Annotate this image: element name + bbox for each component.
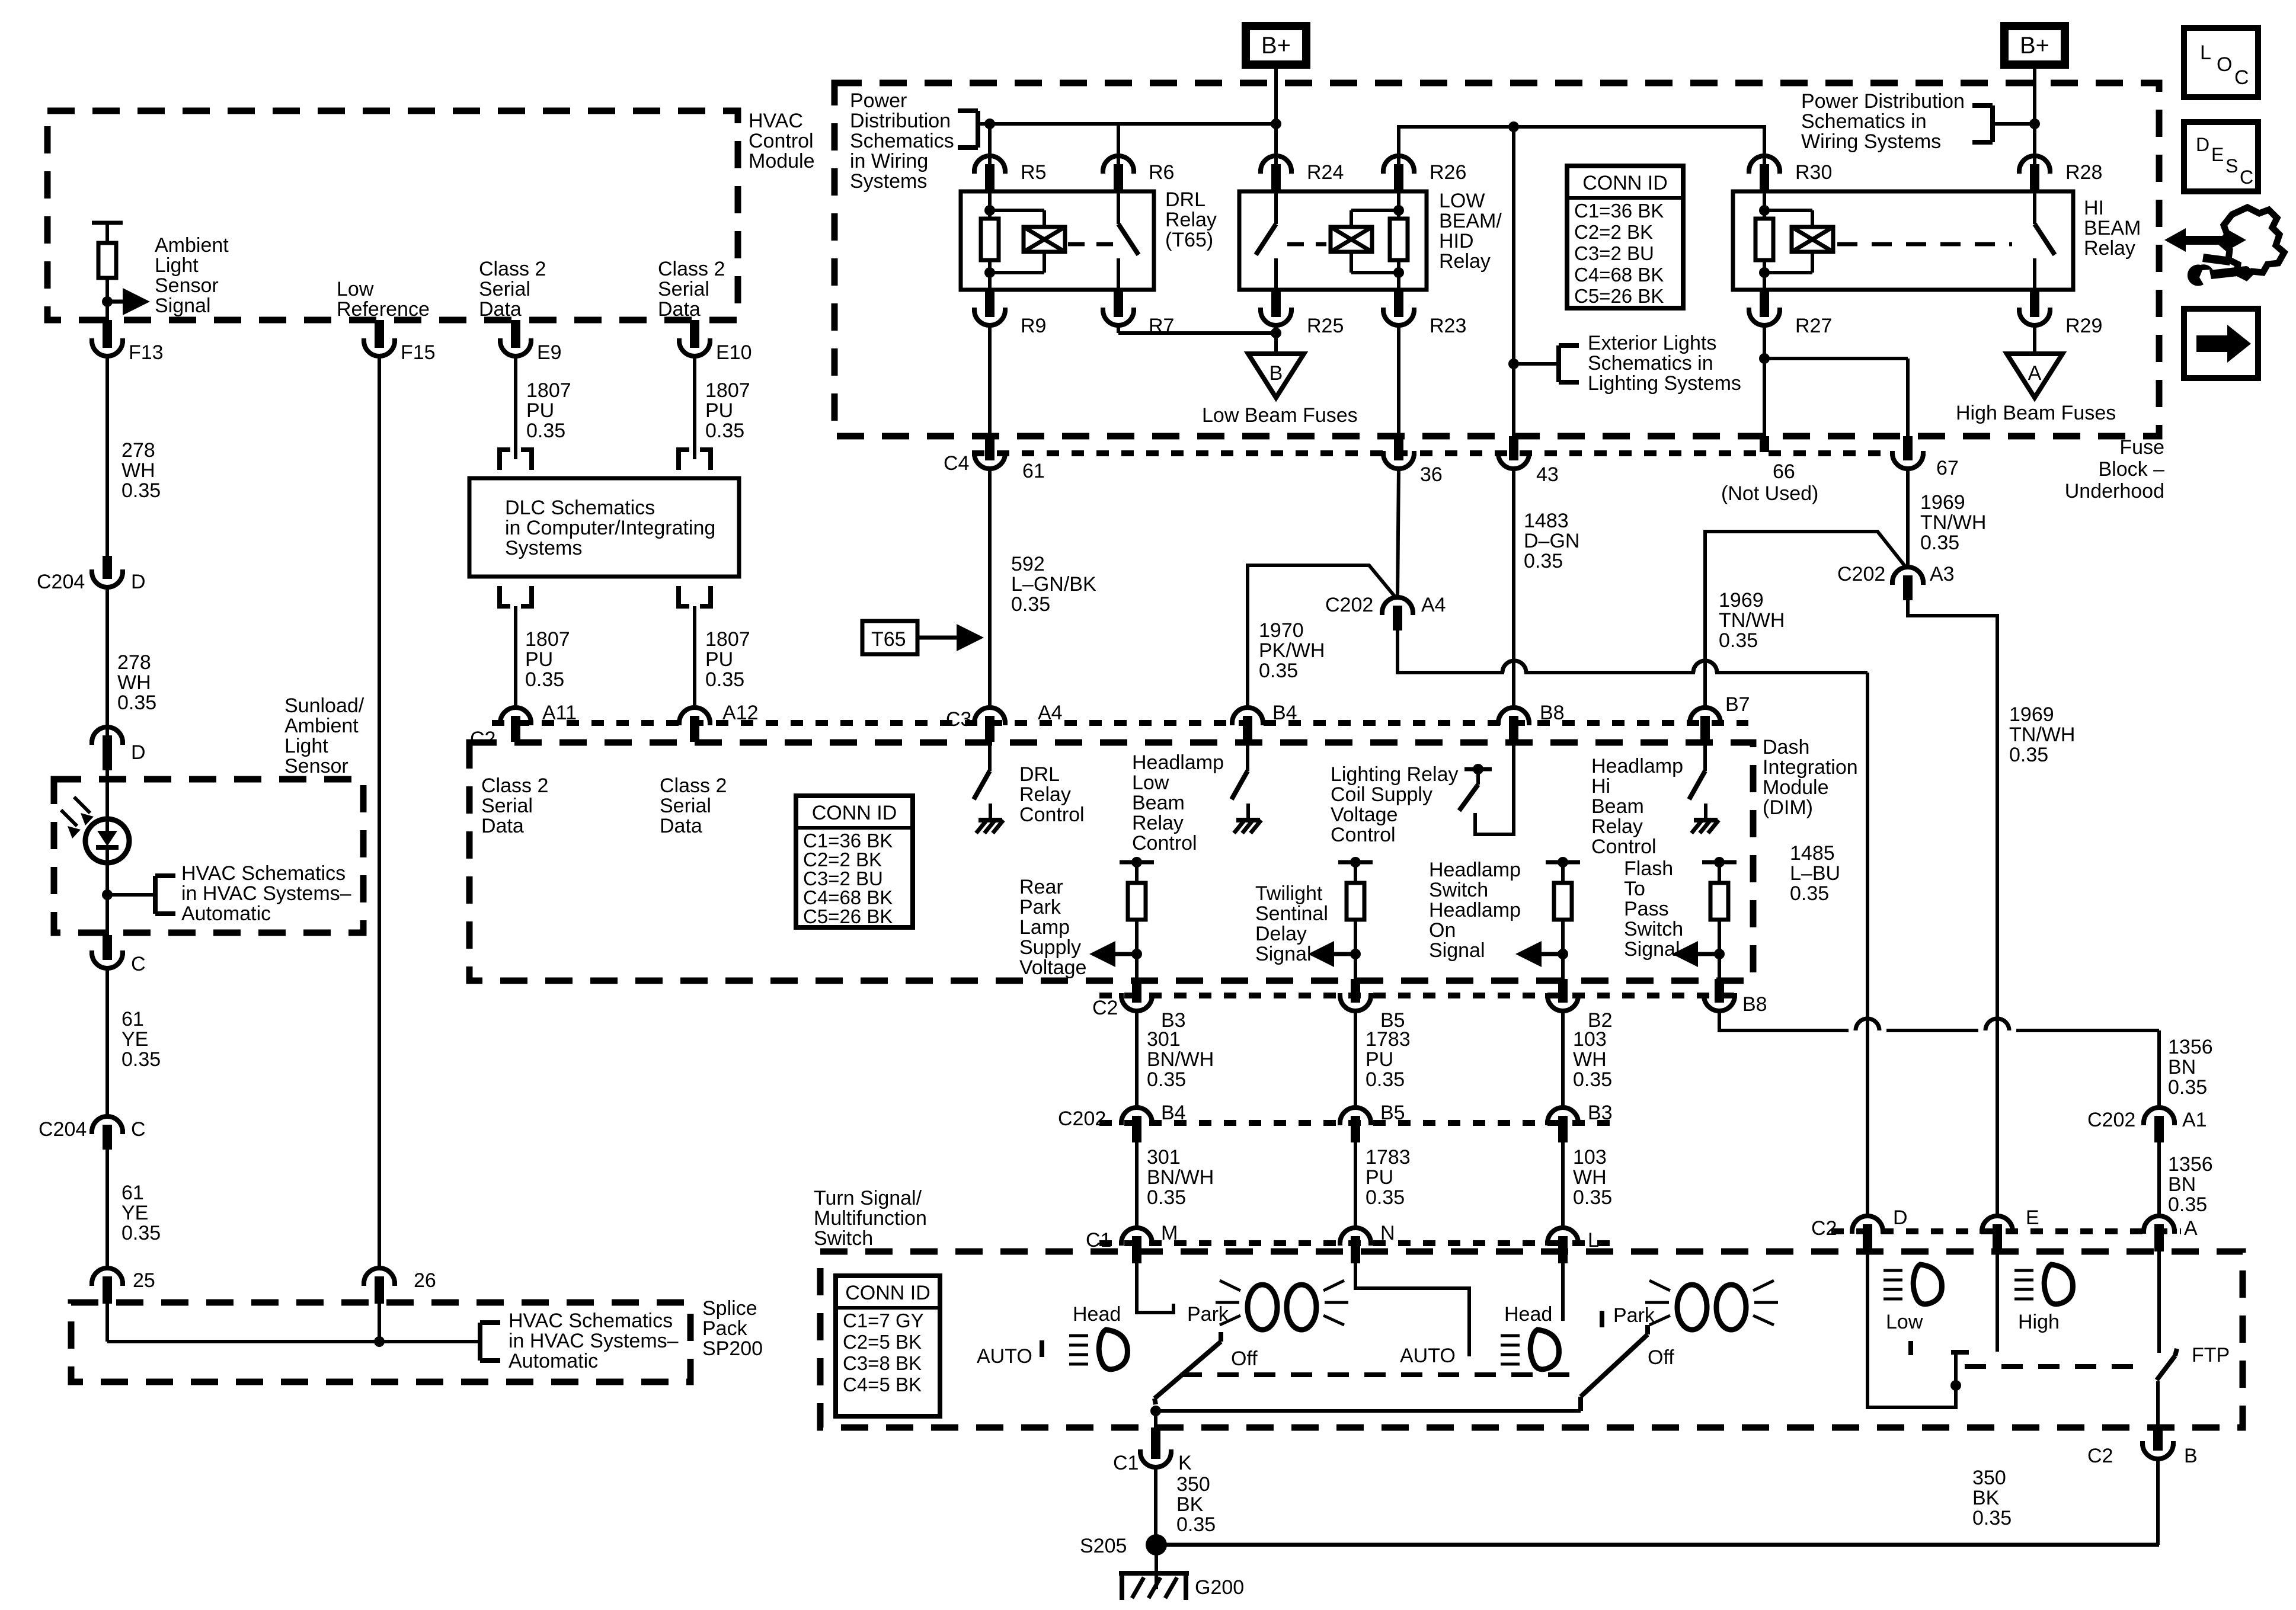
wire B+ right down to R28 [2029, 69, 2040, 171]
svg-text:CONN ID: CONN ID [1582, 172, 1668, 194]
svg-text:C1=36 BK: C1=36 BK [1574, 200, 1664, 222]
module box Fuse Block Underhood [834, 83, 2159, 436]
svg-text:E: E [2026, 1206, 2039, 1229]
svg-text:TN/WH: TN/WH [1920, 511, 1986, 534]
svg-text:Low: Low [1132, 772, 1169, 794]
svg-text:301: 301 [1147, 1028, 1181, 1051]
svg-text:Module: Module [1763, 776, 1829, 799]
svg-text:CONN ID: CONN ID [845, 1282, 930, 1304]
arrow ambient light sensor signal [107, 288, 150, 315]
junction dimmer [1950, 1380, 1961, 1391]
svg-text:Serial: Serial [658, 278, 709, 300]
label AUTO (group2) [1400, 1345, 1456, 1367]
connector R29 [2017, 290, 2102, 337]
svg-text:C5=26 BK: C5=26 BK [803, 905, 893, 927]
pin frame DLC bottom E9 [500, 586, 532, 606]
label Off (group2) [1648, 1346, 1674, 1369]
svg-text:Pack: Pack [702, 1317, 748, 1340]
svg-text:R23: R23 [1430, 315, 1466, 337]
svg-text:PU: PU [1366, 1048, 1393, 1071]
relay HIBEAM switch [2035, 191, 2055, 290]
svg-text:PU: PU [705, 399, 733, 422]
svg-text:0.35: 0.35 [2009, 744, 2048, 766]
svg-text:0.35: 0.35 [1366, 1068, 1405, 1091]
svg-text:Flash: Flash [1624, 857, 1673, 880]
svg-text:BEAM: BEAM [2084, 217, 2141, 239]
wire rail to fuse 43 [1512, 127, 1515, 436]
label Splice Pack SP200 [702, 1297, 763, 1360]
svg-text:HVAC Schematics: HVAC Schematics [509, 1310, 673, 1332]
label 1969 TN/WH 0.35 (fuse 67) [1920, 491, 1986, 554]
connector row DIM top [492, 720, 1748, 726]
svg-text:Integration: Integration [1763, 756, 1858, 779]
svg-text:C: C [131, 1118, 146, 1141]
svg-text:R28: R28 [2065, 161, 2102, 184]
power B+ (right) [2000, 22, 2069, 69]
svg-text:0.35: 0.35 [525, 668, 564, 691]
svg-text:BEAM/: BEAM/ [1439, 210, 1502, 232]
connector C202 B4 [1119, 1102, 1186, 1142]
svg-text:C: C [2240, 167, 2253, 188]
switch headlamp hi beam relay control [1689, 742, 1719, 833]
wire 103 lower segment [1561, 1142, 1565, 1228]
svg-text:Reference: Reference [337, 298, 430, 321]
connector C2 D [1850, 1206, 1908, 1251]
label C2 (DIM bottom row) [1092, 997, 1118, 1019]
table CONN ID (switch) [836, 1276, 940, 1416]
wire A4 to D riser [1398, 630, 1868, 1216]
ground G200 [1119, 1573, 1244, 1600]
bracket power distribution ref (left) [958, 111, 978, 148]
svg-text:A: A [2028, 362, 2042, 385]
label Headlamp Switch Headlamp On Signal [1429, 859, 1521, 962]
svg-text:0.35: 0.35 [2168, 1076, 2207, 1099]
connector C2 E [1980, 1206, 2039, 1251]
wire 36 to C202/A4 [1398, 469, 1399, 597]
svg-text:25: 25 [133, 1269, 155, 1292]
svg-text:C5=26 BK: C5=26 BK [1574, 285, 1664, 307]
wire 301 lower segment [1135, 1142, 1139, 1228]
label Ambient Light Sensor Signal [155, 234, 229, 317]
svg-text:0.35: 0.35 [1790, 882, 1829, 905]
svg-text:Switch: Switch [1429, 879, 1488, 901]
svg-text:Schematics: Schematics [850, 130, 954, 152]
svg-text:Twilight: Twilight [1255, 882, 1323, 905]
wire B8 to C202 A1 [1719, 1011, 2159, 1108]
svg-text:350: 350 [1972, 1467, 2006, 1489]
label 592 L-GN/BK 0.35 [1011, 553, 1096, 616]
svg-text:C2: C2 [1811, 1217, 1837, 1240]
svg-text:BK: BK [1972, 1487, 2000, 1509]
connector R28 [2017, 156, 2102, 191]
svg-text:WH: WH [1573, 1048, 1607, 1071]
svg-text:0.35: 0.35 [121, 479, 161, 502]
svg-text:Control: Control [1331, 824, 1396, 846]
label 350 BK 0.35 (K) [1176, 1473, 1216, 1536]
wire B+ left to rail [1274, 69, 1278, 125]
table CONN ID (DIM) [796, 796, 913, 927]
svg-text:278: 278 [117, 651, 151, 674]
svg-text:PU: PU [705, 648, 733, 671]
wire E10 to DLC [693, 356, 696, 459]
label 1969 TN/WH 0.35 (A3) [2009, 703, 2075, 766]
svg-text:AUTO: AUTO [977, 1345, 1032, 1368]
label Power Distribution Schematics in Wiring Systems (left) [850, 89, 954, 193]
relay LOWBEAM control dashed [1287, 242, 1326, 247]
connector row fuse block underhood [972, 450, 1885, 456]
svg-text:R27: R27 [1795, 315, 1832, 337]
svg-text:C202: C202 [1837, 563, 1885, 585]
label Off (group1) [1231, 1347, 1258, 1370]
svg-text:Relay: Relay [1165, 209, 1217, 231]
svg-text:Class 2: Class 2 [660, 774, 727, 797]
label B5 pin [1380, 1009, 1405, 1032]
svg-text:Coil Supply: Coil Supply [1331, 783, 1432, 806]
connector row C202 (lower) [1099, 1120, 1612, 1126]
wire sensor to C [105, 895, 109, 935]
icon park lamps (group2) [1645, 1281, 1778, 1330]
resistor branch flash to pass switch signal [1672, 857, 1737, 1011]
svg-text:HID: HID [1439, 230, 1474, 252]
wire FTP to C2 B [2156, 1381, 2160, 1427]
svg-text:C: C [131, 953, 146, 975]
svg-text:B5: B5 [1380, 1102, 1405, 1124]
connector C204 C [39, 1116, 146, 1150]
svg-text:A1: A1 [2182, 1109, 2207, 1131]
linkage headlamp switch sections [1181, 1372, 1579, 1377]
junction sunload to HVAC ref [102, 889, 155, 900]
connector C (sunload) [89, 935, 146, 975]
svg-text:High Beam Fuses: High Beam Fuses [1956, 402, 2116, 424]
svg-text:DRL: DRL [1165, 188, 1205, 211]
connector R27 [1747, 290, 1832, 337]
label 1807 PU 0.35 (E10) [705, 379, 750, 442]
connector B7 [1687, 693, 1750, 742]
label 61 YE 0.35 (lower) [121, 1182, 161, 1244]
hop A4-wire over 43 [1502, 661, 1526, 673]
svg-text:Multifunction: Multifunction [814, 1207, 927, 1230]
relay box LOW BEAM/HID Relay [1239, 191, 1427, 290]
wire F15 down to 26 [378, 356, 381, 1269]
svg-text:Data: Data [658, 298, 701, 321]
wire L head contact [1561, 1263, 1565, 1321]
svg-text:C4=68 BK: C4=68 BK [1574, 264, 1664, 286]
svg-text:G200: G200 [1195, 1576, 1244, 1599]
svg-text:DRL: DRL [1019, 763, 1060, 786]
svg-text:0.35: 0.35 [1972, 1507, 2012, 1529]
svg-text:Relay: Relay [1132, 812, 1184, 834]
svg-text:278: 278 [121, 439, 155, 462]
svg-text:LOW: LOW [1439, 190, 1485, 212]
linkage dimmer to FTP [1965, 1364, 2147, 1369]
label 1783 PU 0.35 (upper) [1366, 1028, 1411, 1091]
wire A to FTP [2157, 1251, 2161, 1353]
svg-text:D: D [2196, 134, 2209, 155]
module box HVAC Control Module [47, 111, 738, 320]
svg-text:1807: 1807 [705, 379, 750, 402]
label Power Distribution Schematics in Wiring Systems (right) [1801, 90, 1965, 153]
svg-text:C3=8 BK: C3=8 BK [843, 1352, 922, 1374]
svg-text:61: 61 [1022, 460, 1045, 482]
bracket power distribution ref (right) [1972, 105, 1993, 142]
svg-text:PK/WH: PK/WH [1259, 639, 1325, 662]
svg-text:1485: 1485 [1790, 842, 1835, 865]
svg-text:0.35: 0.35 [1011, 593, 1050, 616]
svg-text:Dash: Dash [1763, 736, 1809, 758]
label 1485 L-BU 0.35 [1790, 842, 1840, 905]
wire rail to R6 [1117, 124, 1120, 171]
wire C204-C to 25 [105, 1150, 109, 1269]
label 1483 D-GN 0.35 [1524, 510, 1579, 572]
connector 67 [1890, 436, 1959, 479]
wire 103 upper segment [1561, 1011, 1565, 1108]
wire A3 to E riser [1908, 600, 1997, 1216]
label Park (group2) [1613, 1304, 1655, 1327]
svg-text:Splice: Splice [702, 1297, 757, 1320]
svg-text:T65: T65 [871, 628, 906, 651]
svg-text:C4: C4 [944, 452, 969, 475]
connector R30 [1747, 156, 1832, 191]
icon headlamp low [1884, 1265, 1942, 1304]
svg-text:B3: B3 [1588, 1102, 1613, 1124]
svg-text:Serial: Serial [481, 795, 533, 817]
svg-text:Wiring Systems: Wiring Systems [1801, 130, 1941, 153]
label High Beam Fuses [1956, 402, 2116, 424]
svg-text:Ambient: Ambient [155, 234, 229, 257]
svg-text:Low: Low [337, 278, 374, 300]
wire top power rail left [978, 122, 1276, 126]
wire DLC to A11 [514, 606, 517, 709]
svg-text:1783: 1783 [1366, 1028, 1411, 1051]
svg-text:BN/WH: BN/WH [1147, 1166, 1214, 1189]
svg-text:Sentinal: Sentinal [1255, 902, 1328, 925]
svg-text:0.35: 0.35 [1573, 1186, 1612, 1209]
wire 25 to splice rail [105, 1304, 109, 1342]
svg-text:C202: C202 [1325, 594, 1373, 616]
svg-text:Control: Control [749, 130, 814, 152]
label Lighting Relay Coil Supply Voltage Control [1331, 763, 1458, 846]
svg-text:R25: R25 [1307, 315, 1344, 337]
svg-text:High: High [2018, 1311, 2060, 1333]
svg-text:Serial: Serial [479, 278, 530, 300]
connector R6 [1101, 156, 1174, 191]
fuse ref triangle A (high beam fuses) [2007, 354, 2062, 398]
svg-text:Exterior Lights: Exterior Lights [1588, 332, 1716, 354]
svg-text:Signal: Signal [1255, 943, 1312, 965]
svg-text:1807: 1807 [525, 628, 570, 651]
switch lighting relay coil supply voltage control [1459, 742, 1514, 834]
svg-text:Beam: Beam [1132, 792, 1185, 814]
icon box arrow [2184, 309, 2258, 378]
svg-text:Pass: Pass [1624, 898, 1669, 920]
svg-text:Headlamp: Headlamp [1429, 899, 1521, 921]
svg-text:26: 26 [414, 1269, 436, 1292]
wire M to park contact [1137, 1263, 1173, 1313]
svg-text:To: To [1624, 878, 1645, 900]
label Low [1886, 1311, 1923, 1333]
svg-text:0.35: 0.35 [1920, 532, 1959, 554]
svg-text:Light: Light [284, 735, 328, 757]
icon box DESC [2184, 122, 2258, 191]
label Fuse Block Underhood [2065, 436, 2164, 502]
svg-text:M: M [1161, 1222, 1178, 1244]
wire junction to B fuse triangle [1274, 333, 1278, 354]
connector C2 B [2087, 1427, 2198, 1467]
connector row C2 (switch right) [1831, 1228, 2181, 1234]
connector R25 [1258, 290, 1344, 337]
svg-text:B+: B+ [2020, 33, 2049, 59]
label 1356 BN 0.35 (upper) [2168, 1036, 2213, 1099]
svg-text:Underhood: Underhood [2065, 480, 2164, 502]
label 278 WH 0.35 (lower) [117, 651, 156, 714]
svg-text:L: L [2200, 41, 2211, 64]
wire R7 to junction [1118, 325, 1276, 333]
svg-text:Beam: Beam [1591, 795, 1644, 818]
svg-text:Signal: Signal [1429, 939, 1485, 962]
svg-text:Supply: Supply [1019, 936, 1081, 959]
relay DRL coil+resistor [981, 191, 1065, 290]
svg-text:D–GN: D–GN [1524, 530, 1579, 552]
svg-text:Schematics in: Schematics in [1588, 352, 1713, 375]
svg-text:61: 61 [121, 1182, 144, 1204]
svg-text:A3: A3 [1930, 563, 1955, 585]
svg-text:103: 103 [1573, 1146, 1607, 1169]
label Head (group2) [1504, 1303, 1552, 1326]
svg-text:C2: C2 [2087, 1445, 2113, 1467]
svg-text:0.35: 0.35 [117, 692, 156, 714]
label LOW BEAM/HID Relay [1439, 190, 1502, 273]
connector C204 D [37, 556, 146, 593]
label FTP [2192, 1344, 2230, 1366]
svg-text:B+: B+ [1261, 33, 1291, 59]
svg-text:Block –: Block – [2099, 458, 2165, 481]
label Low Beam Fuses [1202, 404, 1358, 427]
svg-text:BN/WH: BN/WH [1147, 1048, 1214, 1071]
svg-text:Data: Data [660, 815, 702, 837]
junction 43 exterior lights [1508, 359, 1559, 369]
svg-text:Relay: Relay [1439, 250, 1491, 273]
svg-text:B4: B4 [1272, 702, 1297, 724]
wire R9 to fuse 61 [988, 325, 992, 436]
label 61 YE 0.35 (upper) [121, 1008, 161, 1071]
svg-text:(T65): (T65) [1165, 229, 1213, 251]
svg-text:1969: 1969 [1920, 491, 1965, 514]
svg-text:C1: C1 [1113, 1452, 1139, 1474]
svg-text:Control: Control [1591, 836, 1657, 858]
connector C202 A3 [1837, 563, 1955, 600]
label 103 WH 0.35 (upper) [1573, 1028, 1612, 1091]
connector row DIM bottom C2 [1099, 993, 1745, 998]
connector 43 [1496, 436, 1559, 486]
label Class 2 Serial Data (E9) [479, 258, 546, 321]
connector C202 B5 [1338, 1102, 1405, 1142]
svg-text:On: On [1429, 919, 1456, 942]
svg-text:R9: R9 [1021, 315, 1046, 337]
fuse ref triangle B (low beam fuses) [1248, 354, 1304, 398]
power B+ (left) [1242, 22, 1310, 69]
svg-text:PU: PU [526, 399, 554, 422]
svg-text:C2: C2 [1092, 997, 1118, 1019]
relay DRL switch [1118, 191, 1139, 290]
relay LOWBEAM coil+resistor [1331, 191, 1408, 290]
svg-text:FTP: FTP [2192, 1344, 2230, 1366]
svg-text:Voltage: Voltage [1019, 956, 1086, 979]
svg-text:L–BU: L–BU [1790, 862, 1840, 885]
svg-text:PU: PU [1366, 1166, 1393, 1189]
wire ambient light sensor top bar [92, 223, 123, 243]
svg-text:0.35: 0.35 [121, 1222, 161, 1244]
svg-text:Ambient: Ambient [284, 715, 359, 737]
svg-text:Signal: Signal [1624, 938, 1680, 961]
svg-text:Park: Park [1613, 1304, 1655, 1327]
svg-text:A: A [2184, 1217, 2198, 1240]
svg-text:WH: WH [117, 671, 151, 694]
module box Turn Signal/Multifunction Switch [820, 1251, 2243, 1427]
wire D to low contact [1868, 1251, 1956, 1407]
svg-text:Lighting Relay: Lighting Relay [1331, 763, 1458, 786]
svg-text:YE: YE [121, 1202, 148, 1224]
svg-text:1969: 1969 [2009, 703, 2054, 726]
svg-text:Low: Low [1886, 1311, 1923, 1333]
svg-text:Head: Head [1504, 1303, 1552, 1326]
switch headlamp low beam relay control [1232, 742, 1261, 833]
svg-text:TN/WH: TN/WH [2009, 724, 2075, 746]
svg-text:S205: S205 [1080, 1535, 1127, 1557]
svg-text:Schematics in: Schematics in [1801, 110, 1927, 133]
svg-text:B4: B4 [1161, 1102, 1186, 1124]
svg-text:R24: R24 [1307, 161, 1344, 184]
wire 26 to splice rail [378, 1304, 381, 1342]
svg-text:R30: R30 [1795, 161, 1832, 184]
svg-text:1483: 1483 [1524, 510, 1569, 532]
connector C1 N [1338, 1222, 1395, 1263]
wire rail to R5 [988, 124, 992, 171]
connector C3 A4 [946, 702, 1063, 742]
svg-text:0.35: 0.35 [1147, 1186, 1186, 1209]
pin 66 not used [1721, 436, 1818, 505]
svg-text:BK: BK [1176, 1493, 1204, 1516]
label HVAC Schematics in HVAC Systems Automatic (SP200) [509, 1310, 679, 1372]
svg-text:A12: A12 [722, 702, 759, 724]
label 103 WH 0.35 (lower) [1573, 1146, 1612, 1209]
connector 25 [89, 1268, 155, 1304]
connector C1 L [1545, 1228, 1599, 1263]
connector F13 [89, 320, 164, 364]
svg-text:Serial: Serial [660, 795, 711, 817]
hop A4-wire over B7 [1693, 661, 1717, 673]
svg-text:Off: Off [1648, 1346, 1674, 1369]
module box Splice Pack SP200 [71, 1302, 690, 1382]
connector C1 M [1119, 1222, 1178, 1263]
resistor ambient light sensor [98, 243, 116, 278]
svg-text:0.35: 0.35 [1176, 1513, 1216, 1536]
hop B8-wire over E riser [1985, 1019, 2009, 1030]
switch blade headlamp (group2) [1581, 1325, 1648, 1411]
svg-text:0.35: 0.35 [2168, 1193, 2207, 1216]
svg-text:C: C [2234, 66, 2249, 89]
svg-text:SP200: SP200 [702, 1337, 763, 1360]
label Class 2 Serial Data (A12) [660, 774, 727, 837]
svg-text:Automatic: Automatic [181, 902, 271, 925]
wire splice rail SP200 [107, 1336, 480, 1347]
svg-text:C3=2 BU: C3=2 BU [1574, 242, 1654, 264]
svg-text:Headlamp: Headlamp [1429, 859, 1521, 881]
label AUTO (group1) [977, 1345, 1032, 1368]
hop B8-wire over D riser [1856, 1019, 1879, 1030]
arrow T65 to wire [917, 624, 984, 651]
module box DLC [469, 478, 739, 577]
svg-text:Relay: Relay [1019, 783, 1071, 806]
